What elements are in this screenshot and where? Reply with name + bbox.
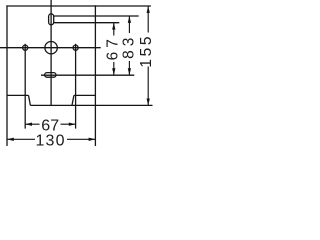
wire right edge / 130 right extension — [94, 5, 96, 146]
wire bottom body edge right segment — [74, 94, 96, 96]
wire right hole vertical extension down to 67 dimension — [75, 44, 77, 129]
wire tab right diagonal — [72, 95, 74, 105]
wire tab left diagonal — [29, 95, 31, 105]
wire 83 extension line from slot upper arc center — [54, 15, 139, 17]
dimension 67 bottom arrows — [25, 123, 39, 125]
wire tab bottom / 155 bottom extension line — [30, 104, 152, 106]
wire left edge / 130 left extension — [6, 5, 8, 146]
wire horizontal center line — [0, 47, 101, 49]
dimension 83 vertical — [128, 16, 130, 33]
wire horizontal line through middle slot to right dims — [41, 74, 134, 76]
svg-text:67: 67 — [105, 35, 122, 60]
wire left hole vertical extension down to 67 dimension — [24, 44, 26, 129]
node circle left hole — [23, 45, 28, 50]
svg-text:83: 83 — [121, 34, 138, 59]
svg-text:155: 155 — [138, 34, 155, 68]
node middle slot horizontal — [45, 73, 56, 78]
dimension 130 arrows — [7, 138, 35, 140]
node keyhole slot top — [49, 14, 54, 25]
node circle right hole — [73, 45, 78, 50]
dimension 155 vertical — [147, 6, 149, 32]
wire 67 extension line from slot lower arc center — [54, 22, 120, 24]
wire top edge / 155 top extension line — [6, 5, 151, 7]
wire vertical center line — [50, 0, 52, 105]
wire bottom body edge left segment — [7, 94, 29, 96]
node circle center hole — [45, 42, 57, 54]
dimension 67 vertical right — [113, 23, 115, 36]
svg-text:130: 130 — [35, 133, 65, 150]
